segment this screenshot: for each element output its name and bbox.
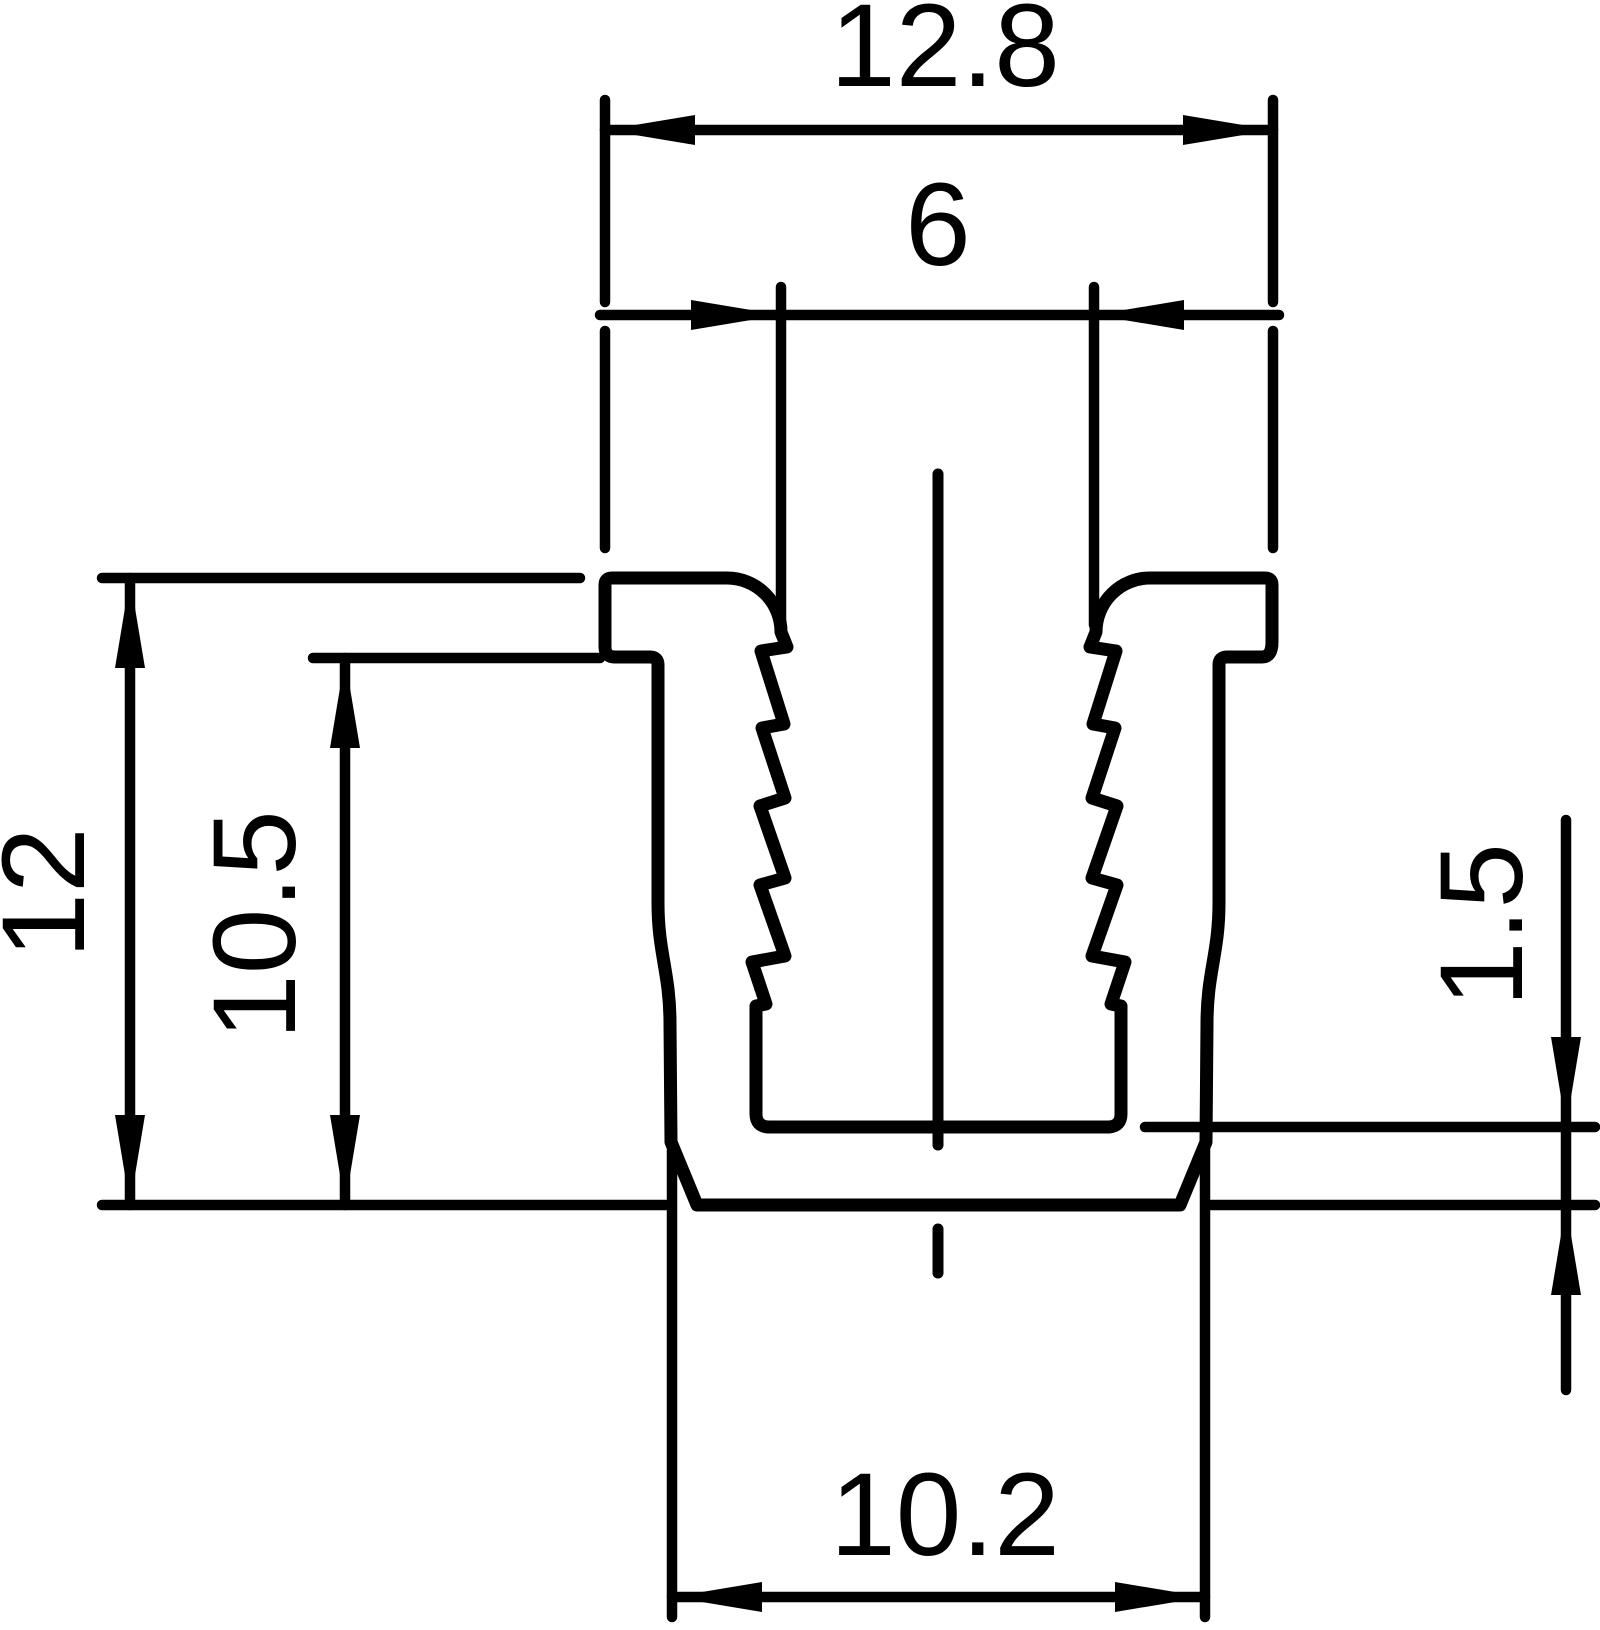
extension line left for 6 [776, 287, 787, 625]
dimension line 10.2 [672, 1592, 1205, 1603]
extension line bottom for 12 and 10.5 [102, 1200, 666, 1211]
svg-text:10.5: 10.5 [189, 810, 321, 1040]
extension line top for 12 [102, 573, 580, 584]
arrow 10.2 left [672, 1582, 762, 1612]
arrow 6 left outside [691, 300, 781, 330]
svg-text:12: 12 [0, 827, 110, 958]
arrow 10.5 top [330, 658, 360, 748]
dimension line 12 [125, 578, 136, 1205]
extension line right for 6 [1089, 287, 1100, 625]
arrow 1.5 up [1551, 1205, 1581, 1295]
dimension line 12.8 [605, 125, 1273, 136]
arrow 1.5 down [1551, 1037, 1581, 1127]
extension line top for 10.5 [313, 653, 600, 664]
dimension line 6 [600, 310, 1279, 321]
extension line left for 10.2 [667, 1150, 678, 1617]
centerline short dash [933, 1229, 944, 1273]
extension line top for 1.5 [1145, 1122, 1595, 1133]
svg-text:6: 6 [905, 159, 971, 291]
extension line left for 12.8 [600, 100, 611, 302]
arrow 10.5 bottom [330, 1115, 360, 1205]
svg-text:10.2: 10.2 [830, 1449, 1060, 1581]
arrow 12 top [115, 578, 145, 668]
arrow 6 right outside [1094, 300, 1184, 330]
centerline long dash [933, 474, 944, 1145]
svg-text:12.8: 12.8 [830, 0, 1060, 112]
dimension line 1.5 [1561, 820, 1572, 1390]
arrow 12.8 left [605, 115, 695, 145]
extension line right for 10.2 [1200, 1150, 1211, 1617]
arrow 10.2 right [1115, 1582, 1205, 1612]
extension line right for 12.8 [1268, 100, 1279, 302]
arrow 12 bottom [115, 1115, 145, 1205]
svg-text:1.5: 1.5 [1416, 843, 1548, 1007]
arrow 12.8 right [1183, 115, 1273, 145]
extension line bottom for 1.5 [1211, 1200, 1595, 1211]
profile cross-section outline [605, 578, 1272, 1205]
dimension line 10.5 [340, 658, 351, 1205]
